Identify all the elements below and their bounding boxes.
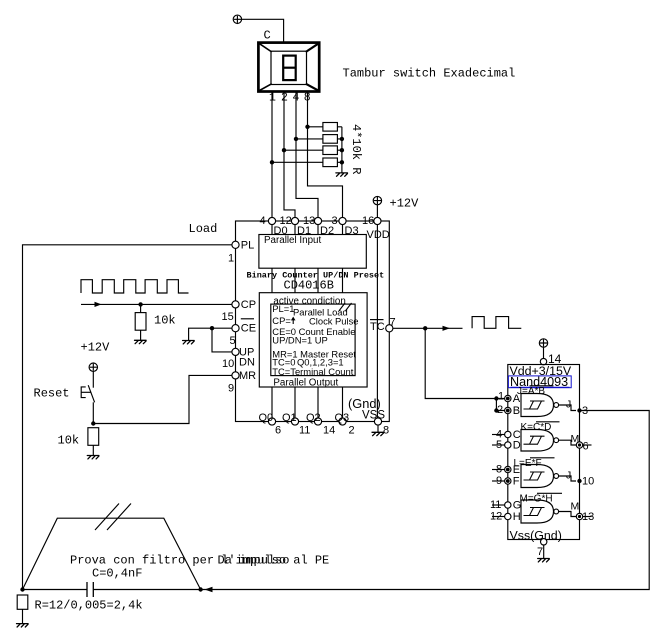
svg-text:PL=1: PL=1 — [272, 303, 294, 314]
hyperlink Nand4093 — [508, 375, 571, 389]
+12V supply top — [373, 196, 381, 204]
svg-text:C=0,4nF: C=0,4nF — [92, 567, 142, 581]
U2 pin H 12 stub — [492, 516, 505, 518]
ground U2 — [538, 559, 550, 562]
wire switch to node — [92, 402, 94, 423]
U1 internal wire D0 — [271, 221, 273, 422]
wire tie A-B — [496, 399, 504, 411]
svg-text:+12V: +12V — [390, 197, 420, 211]
wire R5 to ground — [140, 330, 142, 340]
svg-text:7: 7 — [537, 546, 543, 558]
svg-text:Load: Load — [189, 222, 218, 236]
svg-text:G: G — [513, 500, 522, 512]
U1 left pin UP/DN 10 — [232, 348, 239, 355]
U1 inner slashes — [339, 303, 352, 311]
gate U2B output wire to pin6 — [559, 440, 577, 445]
svg-text:1: 1 — [498, 391, 504, 403]
U1 internal wire D1 — [294, 221, 296, 422]
svg-text:Tambur switch Exadecimal: Tambur switch Exadecimal — [343, 67, 516, 81]
U2 pin C 4 stub — [492, 434, 505, 436]
svg-text:CP=: CP= — [272, 315, 291, 326]
svg-text:2: 2 — [497, 404, 503, 416]
svg-text:J: J — [566, 399, 571, 411]
ground VSS — [372, 432, 384, 435]
svg-text:6: 6 — [583, 441, 589, 453]
ground R5 — [135, 340, 147, 343]
svg-text:10: 10 — [582, 476, 594, 488]
wire R6 to ground — [92, 445, 94, 455]
svg-text:A: A — [513, 393, 521, 405]
wire R7 to ground — [22, 609, 24, 623]
wire CE — [189, 328, 232, 340]
wire TC to gate A — [425, 328, 504, 398]
svg-text:Clock Pulse: Clock Pulse — [309, 316, 359, 327]
node dot tie B — [494, 408, 498, 412]
resistor R3 — [323, 146, 338, 155]
wire pin3 to bottom — [93, 411, 649, 590]
svg-text:6: 6 — [275, 425, 281, 437]
svg-text:+12V: +12V — [81, 341, 111, 355]
gate U2A body — [521, 394, 554, 417]
wire reset to MR — [93, 375, 232, 423]
svg-text:Parallel Output: Parallel Output — [273, 378, 338, 389]
arrow TC — [443, 326, 451, 331]
svg-text:Reset: Reset — [34, 387, 70, 401]
node dots resistor rows — [305, 125, 309, 129]
svg-text:MR: MR — [239, 370, 256, 382]
svg-text:8: 8 — [496, 464, 502, 476]
U1 bottom pin Q3 2 — [339, 418, 346, 425]
U1 top pin 13 — [314, 217, 321, 224]
svg-text:D2: D2 — [320, 225, 334, 237]
U1 top pin 3 — [339, 217, 346, 224]
arrow bottom — [205, 587, 213, 593]
svg-text:Vss(Gnd): Vss(Gnd) — [510, 529, 562, 543]
IC U2 Nand4093 box — [508, 365, 580, 540]
U1 internal wire D2 — [317, 221, 319, 422]
resistor R1 — [323, 123, 338, 132]
svg-text:M: M — [571, 501, 580, 513]
U1 bottom pin Q1 11 — [291, 418, 298, 425]
svg-text:C: C — [264, 29, 271, 43]
U1 internal wire D3 — [342, 221, 344, 422]
svg-text:9: 9 — [228, 383, 234, 395]
U2 pin G 11 stub — [492, 504, 505, 506]
svg-text:2: 2 — [349, 425, 355, 437]
U2 pin 6 out — [580, 444, 592, 446]
svg-text:F: F — [513, 476, 520, 488]
pushbutton S2 — [81, 385, 94, 402]
node dot CP-10k — [138, 302, 142, 306]
svg-text:D1: D1 — [297, 225, 311, 237]
wire TC out — [393, 327, 463, 329]
wire to R5 — [140, 304, 142, 312]
U1 left pin PL 1 — [232, 241, 239, 248]
clock squarewave symbol — [81, 280, 189, 293]
svg-text:1: 1 — [228, 253, 234, 265]
svg-text:Q2: Q2 — [306, 412, 321, 424]
U2 pin 3 out — [577, 408, 581, 412]
U1 bottom pin VSS 8 — [374, 418, 381, 425]
wire P1 to switch — [242, 19, 284, 42]
U1 inner-inner box — [271, 304, 355, 376]
svg-text:CP: CP — [241, 299, 256, 311]
svg-text:R=12/0,005=2,4k: R=12/0,005=2,4k — [35, 599, 143, 613]
wire supply to pin14 — [543, 347, 545, 364]
wire CE to UP — [212, 328, 232, 352]
svg-text:14: 14 — [323, 425, 335, 437]
resistor R6 10k — [88, 428, 99, 446]
svg-text:TC: TC — [370, 321, 385, 333]
ground resistor bus — [336, 173, 348, 176]
TC squarewave symbol — [472, 317, 521, 329]
U1 bottom pin Q0 6 — [268, 418, 275, 425]
gate U2A output wire to pin3 — [559, 405, 576, 411]
svg-text:Da impulso: Da impulso — [218, 554, 290, 568]
U2 pin D 5 stub — [492, 444, 505, 446]
U1 left pin CP 15 — [232, 301, 239, 308]
capacitor C1 — [87, 582, 93, 597]
node dot tie A — [494, 396, 498, 400]
U1 Parallel Input box — [259, 235, 366, 269]
svg-text:Prova con filtro per l'impulso: Prova con filtro per l'impulso al PE — [70, 554, 329, 568]
node dot reset — [91, 421, 95, 425]
ground R7 — [17, 624, 29, 627]
gate U2B body — [521, 430, 554, 452]
svg-text:VSS: VSS — [362, 410, 385, 422]
wire VSS to ground — [377, 425, 379, 432]
trapezoid filter outline — [23, 518, 201, 589]
svg-text:15: 15 — [222, 311, 234, 323]
U2 pin F 9 stub — [492, 480, 505, 482]
trapezoid slashes — [95, 504, 131, 531]
svg-text:5: 5 — [230, 335, 236, 347]
svg-text:CD4016B: CD4016B — [284, 279, 334, 293]
wire sw2 jog to pin12 — [284, 92, 295, 218]
U1 left pin MR 9 — [232, 372, 239, 379]
resistor R4 — [323, 158, 338, 167]
wire pin7 to ground — [543, 545, 545, 558]
wire Load net — [23, 245, 232, 590]
U2 pin 14 — [540, 358, 546, 364]
svg-text:E: E — [513, 464, 520, 476]
wire sw4 jog to pin13 — [296, 92, 318, 218]
terminal P1 — [233, 15, 241, 23]
svg-text:11: 11 — [490, 499, 501, 511]
svg-text:Q3: Q3 — [335, 412, 350, 424]
resistor R2 — [323, 135, 338, 144]
node dot trapezoid — [198, 587, 202, 591]
wire CP — [81, 303, 232, 305]
U2 pin 13 out — [580, 516, 592, 518]
svg-text:H: H — [513, 511, 521, 523]
U2 pin 10 out — [577, 479, 581, 483]
U1 right pin TC 7 — [386, 325, 393, 332]
resistor R5 10k — [135, 313, 146, 331]
wire sw1 to pin4 — [271, 92, 273, 218]
wire P2 to switch — [92, 371, 94, 387]
svg-text:8: 8 — [383, 425, 389, 437]
terminal P2 — [89, 363, 97, 371]
svg-text:4: 4 — [260, 215, 266, 227]
supply terminal U2 — [539, 339, 547, 347]
arrow CP — [95, 302, 102, 307]
svg-text:M=G*H: M=G*H — [520, 494, 553, 505]
gate U2C output wire to pin10 — [559, 476, 576, 481]
svg-text:10k: 10k — [154, 314, 176, 328]
svg-text:12: 12 — [490, 511, 502, 523]
U2 pin B 2 — [505, 407, 511, 413]
svg-text:J: J — [566, 470, 571, 482]
U1 inner box — [259, 293, 367, 387]
svg-text:10: 10 — [222, 358, 234, 370]
ground CE — [183, 341, 195, 344]
svg-text:D0: D0 — [274, 225, 288, 237]
svg-text:5: 5 — [496, 439, 502, 451]
gate U2C body — [521, 465, 554, 488]
svg-text:TC=Terminal Count: TC=Terminal Count — [272, 366, 353, 377]
svg-text:10k: 10k — [58, 434, 80, 448]
resistor bus wire — [341, 127, 343, 173]
U2 pin 7 — [541, 539, 547, 545]
svg-text:16: 16 — [362, 215, 374, 227]
svg-text:PL: PL — [241, 239, 254, 251]
svg-text:DN: DN — [239, 357, 255, 369]
svg-text:13: 13 — [582, 511, 594, 523]
U1 top pin 16 — [374, 217, 381, 224]
node dot bottom left — [20, 587, 24, 591]
svg-text:9: 9 — [496, 475, 502, 487]
U1 internal wire VDD-VSS — [376, 221, 378, 422]
gate U2D output wire to pin13 — [559, 512, 577, 517]
svg-text:UP/DN=1 UP: UP/DN=1 UP — [272, 335, 328, 346]
wire sw8 jog to pin3 — [308, 92, 343, 218]
svg-text:Q1: Q1 — [282, 412, 297, 424]
U2 pin A 1 — [505, 395, 511, 401]
svg-text:Q0: Q0 — [259, 412, 274, 424]
ground R6 — [87, 456, 99, 459]
svg-text:D: D — [513, 440, 521, 452]
U1 top pin 4 — [268, 217, 275, 224]
U1 top pin 12 — [291, 217, 298, 224]
svg-text:4*10k R: 4*10k R — [349, 124, 363, 174]
thumbwheel switch S1 — [258, 43, 319, 92]
svg-text:11: 11 — [299, 425, 310, 437]
node dot CE-UP — [210, 326, 214, 330]
svg-text:D3: D3 — [345, 225, 359, 237]
svg-text:7: 7 — [390, 317, 396, 329]
IC U1 CD4016B box — [236, 221, 390, 422]
wire cap left — [23, 589, 88, 591]
node dot TC — [423, 326, 427, 330]
U1 bottom pin Q2 14 — [314, 418, 321, 425]
U2 pin E 8 stub — [492, 469, 505, 471]
U1 left pin CE 5 — [232, 325, 239, 332]
svg-text:CE: CE — [241, 323, 256, 335]
gate U2D body — [521, 500, 554, 523]
svg-text:B: B — [513, 405, 520, 417]
resistor R7 — [17, 595, 28, 609]
svg-text:VDD: VDD — [367, 229, 390, 241]
